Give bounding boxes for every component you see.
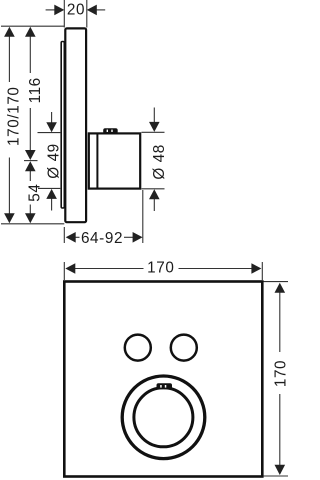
svg-text:170: 170 — [273, 360, 290, 387]
svg-text:20: 20 — [67, 2, 85, 19]
svg-text:Ø 49: Ø 49 — [45, 143, 62, 179]
svg-text:Ø 48: Ø 48 — [151, 144, 168, 180]
svg-text:170/170: 170/170 — [6, 86, 23, 146]
svg-text:170: 170 — [147, 259, 174, 276]
svg-text:54: 54 — [26, 183, 43, 201]
svg-text:64-92: 64-92 — [81, 230, 123, 247]
svg-text:116: 116 — [27, 77, 44, 103]
